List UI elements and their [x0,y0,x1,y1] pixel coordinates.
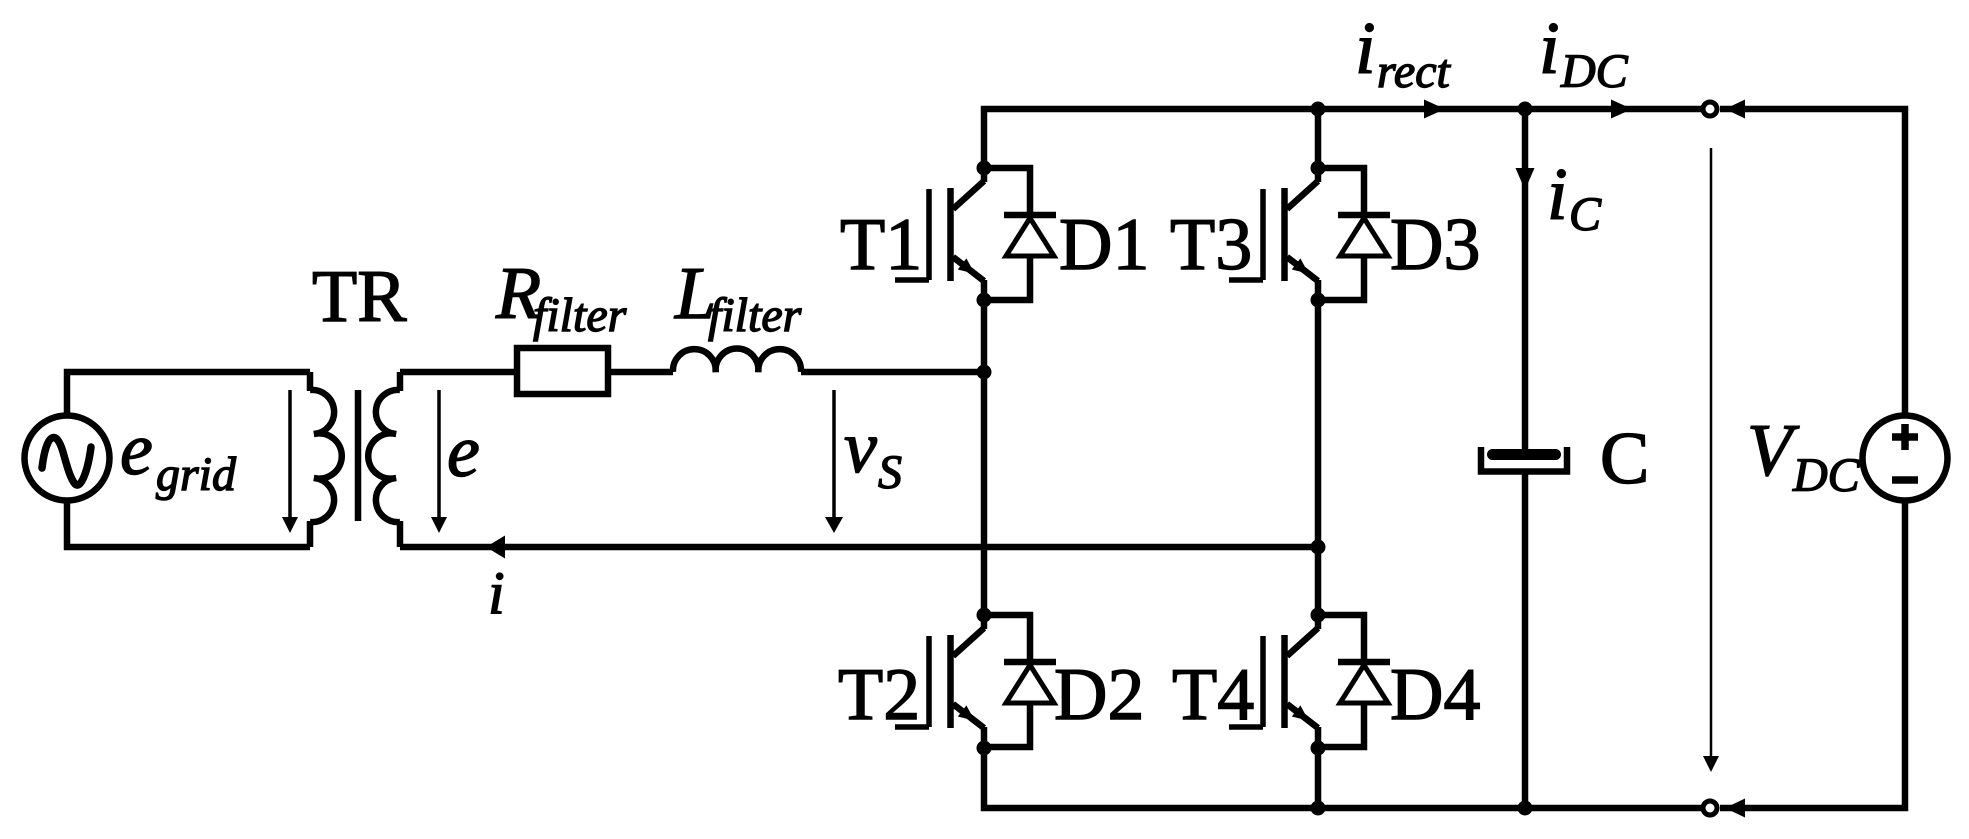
svg-text:T3: T3 [1170,204,1252,286]
diode D4 [1318,615,1390,747]
transistor T4 (IGBT) [1229,612,1318,750]
wire: source loop top + left side [67,372,310,413]
svg-text:D4: D4 [1390,654,1480,736]
label e_grid [120,409,237,501]
resistor R_filter [517,348,608,394]
wire: left leg bottom + bottom rail [984,748,1702,808]
wire: right leg middle [1315,300,1322,615]
svg-text:C: C [1600,418,1649,500]
arrow: v_S (down) [825,390,843,533]
wire: V_DC bottom to bottom-right [1720,503,1905,808]
svg-text:C: C [1569,188,1602,241]
wire: return wire (bridge midpoint to secondary) [400,544,1318,551]
current arrow into DC- terminal (left) [1725,799,1745,818]
svg-text:TR: TR [312,256,407,338]
label R_filter [495,253,627,342]
transistor T2 (IGBT) [895,612,984,750]
wire: capacitor branch top [1522,109,1529,449]
terminal: DC+ (open circle) [1703,102,1717,116]
arrow: V_DC measurement (down) [1703,148,1719,772]
svg-text:e: e [447,411,480,493]
terminal: DC- (open circle) [1703,801,1717,815]
svg-text:D2: D2 [1054,654,1144,736]
svg-text:i: i [1539,8,1560,90]
current arrow i (left) [486,536,505,559]
svg-text:S: S [878,446,902,499]
diode D3 [1318,168,1390,300]
transformer TR secondary winding [368,372,400,547]
node: T1 collector [977,161,992,176]
transformer TR primary winding [310,372,342,547]
label L_filter [674,253,802,342]
current arrow i_C (down) [1516,168,1535,190]
svg-text:grid: grid [156,448,237,501]
svg-text:v: v [844,407,877,489]
svg-text:filter: filter [533,289,627,342]
arrow: secondary voltage e (down) [431,390,447,533]
transformer core [355,390,362,521]
node: T4 emitter [1311,741,1326,756]
wire: top rail [984,109,1702,168]
svg-text:D1: D1 [1059,204,1149,286]
svg-text:i: i [1355,8,1376,90]
node: bottom rail / right leg [1311,801,1326,816]
node: T3 collector [1311,161,1326,176]
svg-text:D3: D3 [1390,204,1480,286]
svg-text:e: e [120,409,153,491]
source V_DC (circle with + and -) [1863,416,1948,501]
wire: left leg middle [981,300,988,615]
node: T4 collector [1311,608,1326,623]
node: top rail / right leg [1311,102,1326,117]
node: top rail / capacitor branch [1518,102,1533,117]
wire: source loop bottom + left side [67,503,310,547]
node: T2 emitter [977,741,992,756]
svg-text:rect: rect [1377,45,1452,98]
label i_C [1547,154,1602,241]
svg-text:DC: DC [1560,45,1629,98]
node: T2 collector [977,608,992,623]
arrow: primary voltage (down) [282,390,298,533]
capacitor C [1481,447,1567,472]
svg-text:i: i [1547,154,1568,236]
svg-text:DC: DC [1792,449,1861,502]
wire: capacitor branch bottom [1522,473,1529,808]
current arrow i_DC (right) [1611,100,1632,119]
label i_rect [1355,8,1452,98]
svg-text:T1: T1 [840,204,922,286]
transistor T1 (IGBT) [895,165,984,303]
node: T3 emitter [1311,293,1326,308]
wire: secondary top to resistor [400,369,517,376]
node: return wire / right leg midpoint [1311,540,1326,555]
inductor L_filter [673,349,801,372]
node: bottom rail / capacitor branch [1518,801,1533,816]
current arrow into DC+ terminal (left) [1725,100,1745,119]
wire: right leg top [1315,109,1322,168]
transistor T3 (IGBT) [1229,165,1318,303]
wire: inductor to bridge [801,369,984,376]
wire: right leg bottom [1315,748,1322,808]
node: T1 emitter [977,293,992,308]
svg-text:filter: filter [708,289,802,342]
current arrow i_rect (right) [1424,100,1445,119]
svg-text:i: i [488,560,505,626]
label i_DC [1539,8,1629,98]
svg-text:T2: T2 [838,654,920,736]
label v_S [844,407,902,499]
diode D2 [984,615,1056,747]
AC source e_grid (circle with sine) [25,416,110,501]
diode D1 [984,168,1056,300]
node: AC input / left leg midpoint [977,365,992,380]
wire: top right to V_DC [1720,109,1905,413]
wire: resistor to inductor [608,369,673,376]
label V_DC [1747,410,1861,502]
svg-text:T4: T4 [1172,654,1254,736]
